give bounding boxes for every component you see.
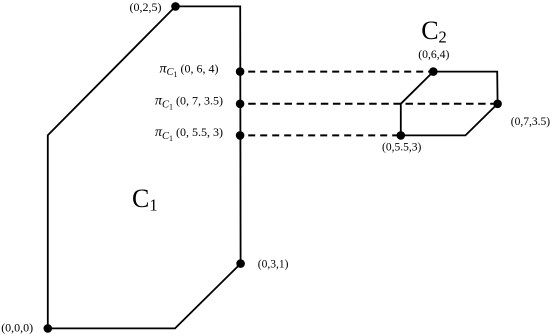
svg-text:(0,3,1): (0,3,1) (258, 258, 289, 270)
svg-text:(0,2,5): (0,2,5) (130, 0, 162, 14)
vertex dot (0,5.5,3) of C2 (397, 131, 406, 140)
polygon C2 outline (401, 72, 498, 136)
vertex dot (0,7,3.5) of C2 (493, 100, 502, 109)
projection dot pi_C1(0,7,3.5) on C1 edge (236, 100, 245, 109)
vertex dot (0,2,5) (171, 2, 180, 11)
dashed projection line to (0,7,3.5) (248, 103, 497, 105)
svg-text:(0,5.5,3): (0,5.5,3) (382, 142, 421, 154)
projection dot pi_C1(0,5.5,3) on C1 edge (236, 131, 245, 140)
svg-text:πC1 (0, 7, 3.5): πC1 (0, 7, 3.5) (155, 94, 223, 112)
svg-text:C1: C1 (132, 184, 158, 214)
svg-text:(0,0,0): (0,0,0) (1, 321, 33, 335)
dashed projection line to (0,5.5,3) (248, 134, 401, 136)
svg-text:C2: C2 (421, 16, 447, 46)
projection dot pi_C1(0,6,4) on C1 edge (236, 67, 245, 76)
svg-text:(0,6,4): (0,6,4) (418, 48, 449, 61)
svg-text:(0,7,3.5): (0,7,3.5) (511, 116, 550, 128)
vertex dot (0,6,4) of C2 (429, 67, 438, 76)
vertex dot (0,3,1) (236, 259, 245, 268)
dashed projection line to (0,6,4) (248, 71, 433, 73)
svg-text:πC1 (0, 6, 4): πC1 (0, 6, 4) (159, 61, 218, 79)
svg-text:πC1 (0, 5.5, 3): πC1 (0, 5.5, 3) (155, 125, 223, 143)
vertex dot (0,0,0) (44, 324, 53, 333)
polygon C1 outline (48, 6, 241, 328)
